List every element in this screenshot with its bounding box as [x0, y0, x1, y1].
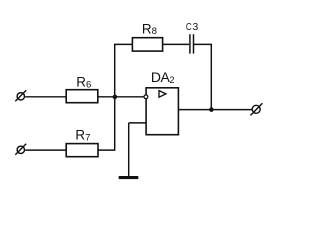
op-amp inverting input circle — [144, 95, 148, 99]
svg-text:3: 3 — [193, 22, 199, 33]
wire R8 to C3 — [163, 43, 190, 45]
op-amp DA2 body — [146, 88, 178, 135]
node A junction dot — [113, 95, 118, 100]
node B junction dot — [209, 107, 214, 112]
resistor R7 — [66, 144, 98, 157]
resistor R6 — [66, 90, 98, 103]
wire R7 to node A vertical — [98, 97, 115, 150]
wire op-amp output to node B and terminal — [178, 109, 252, 111]
wire C3 to output node B — [194, 44, 212, 109]
output terminal OUT — [251, 103, 263, 115]
wire IN2 to R7 — [25, 149, 66, 151]
wire node A to op-amp inverting input — [115, 96, 144, 98]
op-amp DA2 amplifier triangle symbol — [159, 91, 166, 98]
wire non-inverting input — [129, 122, 146, 124]
resistor R8 — [132, 38, 162, 51]
wire node A up to feedback R8 — [115, 44, 133, 96]
wire non-inverting input down to ground — [128, 123, 130, 176]
wire R6 to junction node A — [98, 96, 115, 98]
svg-text:C: C — [186, 21, 192, 33]
input terminal IN2 — [15, 144, 26, 155]
wire IN1 to R6 — [25, 96, 66, 98]
capacitor C3 — [190, 34, 194, 53]
ground — [119, 176, 139, 179]
input terminal IN1 — [15, 90, 26, 101]
